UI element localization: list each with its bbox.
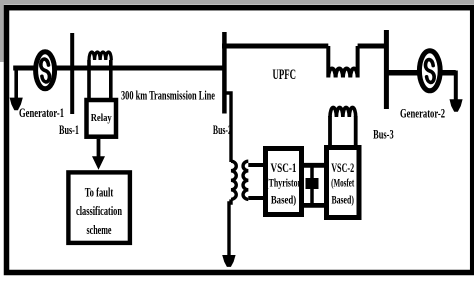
bus Bus-2 xyxy=(222,32,227,114)
arrowhead to fault box xyxy=(92,156,105,170)
wire: main transmission line left xyxy=(13,66,224,71)
svg-text:Relay: Relay xyxy=(91,113,113,124)
svg-text:Generator-1: Generator-1 xyxy=(19,105,64,120)
fault classification box xyxy=(68,172,129,243)
VSC-2 box U2 xyxy=(327,148,360,218)
arrowhead bottom ground xyxy=(222,255,235,267)
svg-text:300 km Transmission Line: 300 km Transmission Line xyxy=(121,88,215,103)
wire: top bypass line left xyxy=(222,44,328,49)
shunt transformer T1 primary winding xyxy=(231,161,236,199)
ground symbol G1 xyxy=(10,98,23,111)
relay box xyxy=(87,100,117,137)
generator G2 xyxy=(419,51,440,91)
svg-text:Based): Based) xyxy=(331,193,354,207)
svg-text:scheme: scheme xyxy=(87,222,112,237)
series transformer secondary coil xyxy=(330,107,356,117)
gray top strip xyxy=(0,0,474,5)
series inductor L1 xyxy=(328,46,357,78)
capacitor C-dc xyxy=(306,178,319,189)
bus Bus-3 xyxy=(384,30,389,109)
svg-text:UPFC: UPFC xyxy=(273,67,297,83)
svg-text:Bus-3: Bus-3 xyxy=(373,126,394,141)
wire: DC link vertical xyxy=(310,165,314,205)
svg-text:To fault: To fault xyxy=(85,185,114,200)
svg-text:(Mosfet: (Mosfet xyxy=(331,176,354,190)
bus Bus-1 xyxy=(70,33,74,114)
wire: bus-3 to generator-2 xyxy=(386,70,455,76)
generator G1 xyxy=(36,52,55,89)
ground symbol G2 xyxy=(450,99,463,112)
wire: DC link rails xyxy=(299,165,329,205)
shunt transformer T1 secondary winding xyxy=(243,161,248,199)
series transformer secondary legs xyxy=(330,116,356,147)
wire: transformer to ground arrow xyxy=(229,199,231,255)
CT coil legs to relay xyxy=(89,60,111,99)
svg-text:classification: classification xyxy=(76,203,122,218)
CT coil C1 xyxy=(89,52,111,60)
gray left strip xyxy=(0,0,4,62)
svg-text:Bus-2: Bus-2 xyxy=(213,122,232,137)
wire: bus-2 branch to shunt transformer xyxy=(224,93,231,162)
wire: relay output xyxy=(97,139,101,159)
svg-text:Based): Based) xyxy=(271,193,296,207)
svg-text:VSC-1: VSC-1 xyxy=(271,161,297,175)
svg-text:VSC-2: VSC-2 xyxy=(331,161,354,175)
svg-text:Generator-2: Generator-2 xyxy=(400,106,445,121)
svg-text:Bus-1: Bus-1 xyxy=(59,122,79,137)
VSC-1 box U1 xyxy=(266,149,302,215)
wire: generator-1 ground drop xyxy=(14,70,18,99)
wire: generator-2 ground drop xyxy=(454,71,458,101)
wire: top bypass line right xyxy=(358,44,388,49)
wire: transformer stubs to VSC-1 xyxy=(248,165,266,198)
svg-text:(Thyristor: (Thyristor xyxy=(266,176,301,190)
